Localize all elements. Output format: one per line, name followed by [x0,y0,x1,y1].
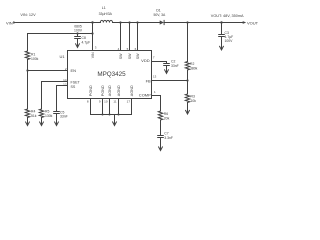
svg-text:SW: SW [119,53,123,59]
svg-text:13: 13 [153,74,157,78]
wire R1 branch top [27,34,29,52]
svg-text:VOUT: 48V, 350mA: VOUT: 48V, 350mA [211,14,244,18]
svg-text:100k: 100k [31,57,39,61]
wire R6 to C7 [160,120,162,135]
capacitor C2 [166,62,168,64]
svg-text:R4: R4 [31,110,35,114]
node dot C3 top [220,21,222,23]
wire R1 to R4 / EN tee [27,60,29,110]
ground arrow under C3 [221,37,223,50]
wire VDD pin 7 [152,61,167,63]
svg-text:FSET: FSET [71,81,81,85]
svg-text:100V: 100V [74,28,83,32]
node dot VIN branch [91,21,93,23]
svg-text:COMP: COMP [139,92,151,97]
resistor R2 [185,62,189,71]
wire COMP pin 1 [152,96,161,112]
svg-text:R3: R3 [191,95,195,99]
wire SW pin 5 [129,23,131,51]
svg-text:VIN: VIN [91,52,95,58]
wire SW pin 6 [137,23,139,51]
node dot SW pin5 [128,21,130,23]
wire GND stub pin 8 [90,99,92,115]
svg-text:C3: C3 [225,31,229,35]
svg-text:C8: C8 [82,36,86,40]
wire GND stub pin 17 [131,99,133,115]
svg-text:PGND: PGND [101,85,105,96]
svg-text:380k: 380k [190,66,198,70]
svg-text:VDD: VDD [141,58,150,63]
wire SW pin 4 [120,23,122,51]
wire SS branch [57,86,68,112]
svg-text:SW: SW [136,53,140,59]
svg-text:50V, 3A: 50V, 3A [154,13,166,17]
resistor R5 [39,109,43,118]
svg-text:EN: EN [71,68,77,73]
capacitor C7 [158,135,164,137]
node dot sub-rail/VIN vertical [91,32,93,34]
node dot SW pin4 [119,21,121,23]
wire R2/R3 divider from VOUT rail [187,23,189,62]
svg-text:10: 10 [104,99,108,103]
svg-text:C7: C7 [164,132,168,136]
wire EN [28,70,68,72]
wire VOUT rail [164,22,243,24]
svg-text:17: 17 [127,99,131,103]
diode D1 [160,20,164,24]
node dot bus 2 [109,114,111,116]
VIN input port arrow [13,21,16,24]
capacitor C3 [221,23,223,35]
svg-text:VOUT: VOUT [247,21,259,26]
ground arrow under C7 [160,138,162,150]
node dot EN tee [26,69,28,71]
svg-text:14: 14 [63,78,67,82]
wire FSET branch [42,82,68,110]
node dot bus 1 [102,114,104,116]
svg-text:33nF: 33nF [60,115,68,119]
VOUT output port arrow [243,21,247,24]
node dot C8 top [76,32,78,34]
svg-text:10k: 10k [191,99,197,103]
ground arrow under C5 [56,114,58,126]
svg-text:MPQ3425: MPQ3425 [97,71,126,78]
svg-text:AGND: AGND [117,85,121,96]
node dot FB tee [186,79,188,81]
svg-text:C2: C2 [171,59,175,63]
svg-text:51k: 51k [31,114,37,118]
node dot bus 3 [118,114,120,116]
svg-text:C5: C5 [60,110,64,114]
svg-text:7: 7 [153,56,155,60]
svg-text:3: 3 [95,45,97,49]
wire R2 to R3 / FB tee [187,70,189,94]
node dot R2 top [186,21,188,23]
svg-text:AGND: AGND [130,85,134,96]
svg-text:12: 12 [63,82,67,86]
ground arrow under bus [114,115,116,125]
svg-text:33nF: 33nF [171,64,179,68]
ground arrow under R5 [41,118,43,126]
svg-text:100V: 100V [225,39,234,43]
ground arrow under R3 [187,103,189,114]
svg-text:L1: L1 [102,6,106,10]
wire ground bus [91,114,132,116]
svg-text:SW: SW [128,53,132,59]
resistor R3 [185,94,189,103]
ground arrow under C8 [77,39,79,47]
svg-text:4.7µF: 4.7µF [225,35,234,39]
svg-text:PGND: PGND [89,85,93,96]
wire main VIN rail [16,22,100,24]
svg-text:FB: FB [146,79,151,84]
resistor R1 [25,51,29,60]
svg-text:9: 9 [99,99,101,103]
ground arrow under R4 [27,118,29,126]
svg-text:130k: 130k [45,114,53,118]
wire GND stub pin 9 [102,99,104,115]
svg-text:R1: R1 [31,52,35,56]
wire FB pin 13 [152,80,188,82]
svg-text:VIN: VIN [6,21,13,26]
svg-text:AGND: AGND [108,85,112,96]
svg-text:SS: SS [71,85,76,89]
capacitor C5 [54,111,60,113]
wire GND stub pin 11 [118,99,120,115]
op-amp U1 MPQ3425 IC body [68,51,152,99]
svg-text:20k: 20k [164,117,170,121]
svg-text:4.7µF: 4.7µF [82,41,91,45]
ground arrow under C2 [166,66,168,73]
resistor R6 [158,111,162,120]
svg-text:U1: U1 [60,54,66,59]
svg-text:R5: R5 [45,110,49,114]
svg-text:33µH/3A: 33µH/3A [99,12,113,16]
node dot SW pin6 [136,21,138,23]
wire sub-rail to R1/C8 [28,33,93,35]
inductor L1 [100,20,112,22]
capacitor C8 [77,34,79,37]
wire SW node [113,22,160,24]
svg-text:R6: R6 [164,112,168,116]
svg-text:0805: 0805 [74,25,82,29]
svg-text:VIN: 12V: VIN: 12V [20,13,36,17]
svg-text:R2: R2 [190,62,194,66]
svg-text:8: 8 [87,99,89,103]
svg-text:3.3nF: 3.3nF [164,136,173,140]
svg-text:D1: D1 [156,9,161,13]
wire GND stub pin 10 [109,99,111,115]
wire VIN branch vertical [92,23,94,51]
svg-text:1: 1 [154,90,156,94]
svg-text:11: 11 [113,99,116,103]
resistor R4 [25,109,29,118]
